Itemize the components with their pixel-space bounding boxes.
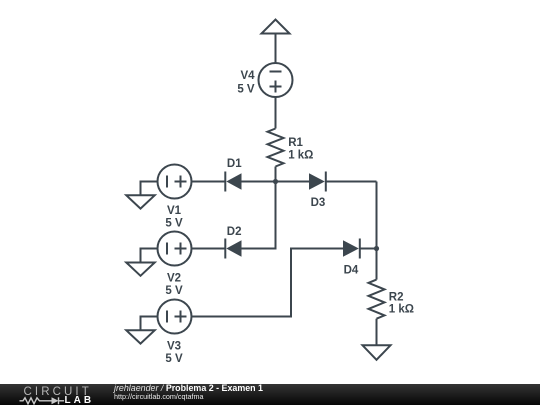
ground (V2) [126, 263, 154, 276]
wire power flag to V4 [275, 34, 277, 64]
diode D4 [343, 239, 360, 259]
label R1 value 1 kΩ [288, 150, 313, 162]
svg-text:5 V: 5 V [237, 84, 255, 96]
svg-text:5 V: 5 V [165, 285, 183, 297]
ground (V1) [126, 195, 154, 208]
diode D1 [225, 172, 241, 192]
diode D2 [225, 239, 241, 259]
voltage source V3 [158, 300, 192, 334]
wire right vertical to node B [376, 182, 378, 249]
voltage source V4 [259, 63, 293, 97]
label V4 value 5 V [237, 84, 255, 96]
wire V2 to D2 [192, 248, 226, 250]
ground (V3) [126, 330, 154, 343]
wire V1 to ground [141, 182, 158, 196]
label D3 [311, 197, 326, 209]
wire V2 to ground [141, 249, 158, 263]
wire R1 to node A [275, 167, 277, 182]
wire D4 to node B [360, 248, 377, 250]
label V1 value 5 V [165, 218, 183, 230]
svg-text:LAB: LAB [65, 395, 95, 405]
svg-text:D4: D4 [344, 265, 359, 277]
label V3 value 5 V [165, 353, 183, 365]
svg-text:1 kΩ: 1 kΩ [288, 150, 313, 162]
svg-text:1 kΩ: 1 kΩ [389, 304, 414, 316]
label V3 [167, 341, 181, 353]
footer text line 2 [114, 392, 203, 401]
svg-text:D2: D2 [227, 226, 242, 238]
wire R2 to ground [376, 319, 378, 346]
power flag (top, V4) [262, 20, 290, 34]
wire node A to D3 [276, 181, 310, 183]
diode D3 [309, 172, 326, 192]
wire D3 to right corner [326, 181, 377, 183]
wire V3 to D4 [192, 249, 344, 317]
node A junction dot [273, 179, 278, 184]
wire V3 to ground [141, 317, 158, 331]
svg-text:V1: V1 [167, 205, 182, 217]
label V4 [241, 70, 256, 82]
label R2 [389, 291, 404, 303]
label R1 [288, 137, 303, 149]
svg-text:V4: V4 [241, 70, 256, 82]
svg-text:V3: V3 [167, 341, 181, 353]
svg-text:D1: D1 [227, 158, 242, 170]
wire D1 to node A [242, 181, 276, 183]
svg-text:D3: D3 [311, 197, 326, 209]
wire V1 to D1 [192, 181, 226, 183]
node B junction dot [374, 246, 379, 251]
wire node B to R2 [376, 249, 378, 280]
CircuitLab logo [0, 384, 100, 405]
svg-text:R1: R1 [288, 137, 303, 149]
svg-text:5 V: 5 V [165, 218, 183, 230]
wire V4 to R1 [275, 97, 277, 129]
footer text line 1 [114, 383, 263, 393]
label V1 [167, 205, 182, 217]
label D2 [227, 226, 242, 238]
label V2 [167, 273, 181, 285]
voltage source V2 [158, 232, 192, 266]
svg-text:5 V: 5 V [165, 353, 183, 365]
label D4 [344, 265, 359, 277]
voltage source V1 [158, 165, 192, 199]
svg-text:V2: V2 [167, 273, 181, 285]
label R2 value 1 kΩ [389, 304, 414, 316]
ground (R2) [363, 345, 391, 360]
resistor R1 [268, 129, 284, 167]
label V2 value 5 V [165, 285, 183, 297]
wire D2 up to node A [242, 182, 276, 249]
resistor R2 [369, 280, 385, 319]
svg-text:R2: R2 [389, 291, 404, 303]
label D1 [227, 158, 242, 170]
